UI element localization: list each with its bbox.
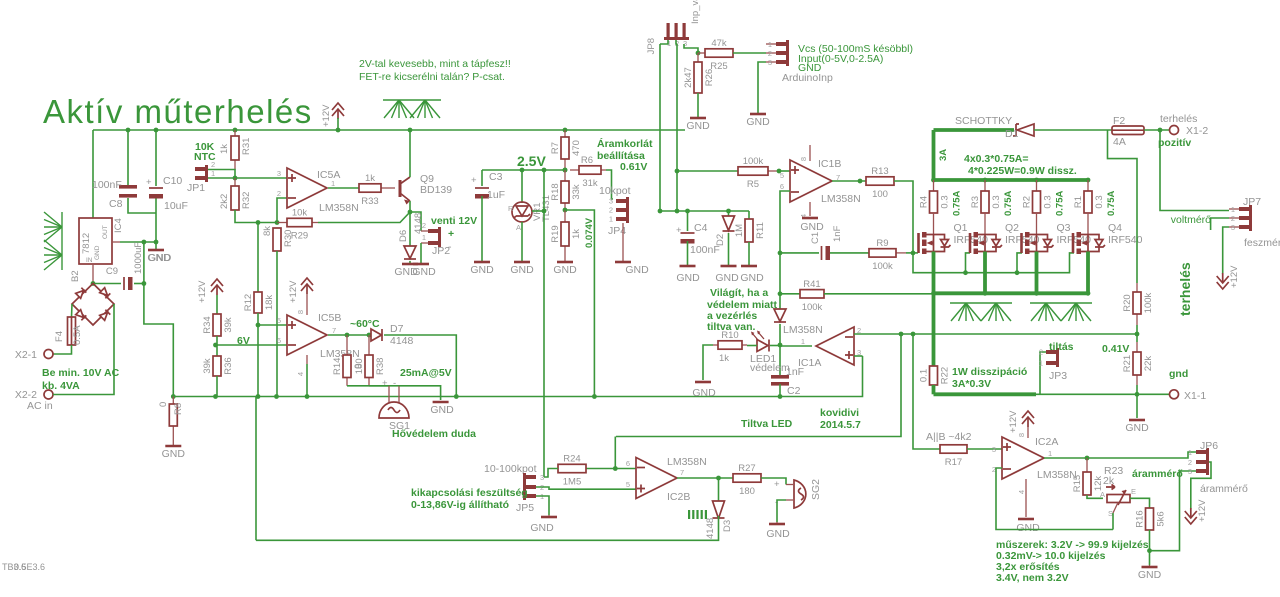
junction Q1 source on bus [931, 291, 936, 296]
svg-text:R16: R16 [1135, 510, 1146, 527]
resistor R21 22k [1122, 342, 1154, 385]
svg-text:R17: R17 [945, 457, 962, 468]
svg-text:pozitív: pozitív [1158, 137, 1191, 149]
junction R25 R26 node [696, 51, 701, 56]
svg-text:kovidivi: kovidivi [820, 407, 859, 419]
wire D3 riser [718, 478, 720, 501]
wire C1 right to R9 [830, 252, 869, 254]
svg-text:33k: 33k [571, 184, 582, 200]
wire F2 to X1-2 [1144, 129, 1169, 131]
svg-text:0.75A: 0.75A [1055, 191, 1066, 216]
svg-text:10uF: 10uF [164, 200, 188, 212]
junction C9 minus corner [142, 281, 147, 286]
wire D2 bottom [728, 233, 730, 266]
ground GND under R10 [695, 381, 711, 384]
wire JP5 pin2 to IC2B +in [536, 487, 636, 489]
svg-text:0: 0 [158, 402, 169, 407]
pin 4 stub IC1B and ground [809, 202, 811, 216]
pin 8 stub IC1B [809, 145, 811, 161]
wire JP6 pin2 to +12V down arrow [1191, 462, 1211, 509]
wire 0.41V node to R21 [1136, 334, 1138, 342]
svg-text:3: 3 [1231, 223, 1235, 232]
svg-text:C2: C2 [787, 385, 801, 397]
svg-text:R7: R7 [550, 142, 561, 154]
svg-text:C1: C1 [810, 232, 821, 244]
svg-text:4148: 4148 [390, 335, 414, 347]
svg-text:IC2B: IC2B [667, 491, 690, 503]
svg-text:2: 2 [609, 206, 613, 215]
capacitor C9 1000uF [106, 242, 144, 290]
svg-text:C3: C3 [489, 171, 503, 183]
wire Q2 source to bus [983, 252, 987, 294]
wire R29 right to Q9 emitter [318, 212, 410, 223]
connector JP4 10kpot [608, 197, 629, 238]
junction gate feed node [911, 251, 916, 256]
ground GND under D6 [402, 263, 418, 266]
junction R12 IC5B node [256, 323, 261, 328]
ground GND under R11 [741, 265, 757, 268]
junction NTC divider node [275, 220, 280, 225]
junction IC2B feedback node [613, 466, 618, 471]
connector X1-2 [1170, 126, 1179, 135]
svg-text:R31: R31 [241, 138, 252, 155]
wire emitter node to JP2 [410, 212, 421, 231]
junction R15 top [1085, 456, 1090, 461]
wire JP2 pin1 to ground [420, 243, 422, 264]
resistor R19 1k [550, 210, 582, 262]
junction R8 top on rail [171, 394, 176, 399]
wire Q9 collector to rail [409, 130, 411, 177]
svg-text:D6: D6 [398, 230, 409, 242]
svg-text:C10: C10 [163, 175, 182, 187]
wire JP9 pin3 to ground [758, 62, 766, 114]
svg-text:IC4: IC4 [113, 218, 124, 233]
wire gate bus down [913, 253, 1074, 273]
pin 8 stub IC2A [1027, 427, 1029, 438]
svg-text:Világít, ha a: Világít, ha a [710, 287, 768, 299]
svg-text:GND: GND [553, 264, 577, 276]
resistor R36 39k [202, 356, 234, 376]
svg-text:1: 1 [422, 233, 426, 242]
capacitor C4 100nF [681, 233, 695, 244]
svg-text:1k: 1k [365, 173, 375, 184]
wire R15 to trimpot [1087, 495, 1103, 498]
svg-text:1M5: 1M5 [563, 477, 581, 488]
junction R1 top on bus [1086, 178, 1091, 183]
svg-text:GND: GND [715, 272, 739, 284]
ground GND under C4 [680, 265, 696, 268]
ground GND under R19 [553, 262, 577, 276]
wire C3 top stem [481, 170, 483, 186]
svg-text:+: + [382, 378, 388, 389]
wire TL431 anode to ground [521, 222, 523, 262]
svg-text:D2: D2 [715, 234, 726, 246]
junction R12 top tap [256, 220, 261, 225]
transistor Q4 IRF540 mosfet [1073, 213, 1143, 254]
svg-text:10k: 10k [292, 208, 308, 219]
svg-text:ArduinoInp: ArduinoInp [782, 72, 833, 84]
diode D2 [723, 216, 735, 231]
svg-text:IC1B: IC1B [818, 158, 841, 170]
svg-text:18k: 18k [264, 295, 275, 311]
diode D6 4148 [404, 246, 416, 259]
wire TL431 cathode [521, 170, 523, 203]
wire IC1B -in down [780, 191, 790, 310]
svg-text:GND: GND [1138, 569, 1162, 581]
svg-text:R36: R36 [223, 357, 234, 374]
svg-text:R26: R26 [704, 69, 715, 86]
svg-text:LM358N: LM358N [667, 456, 707, 468]
svg-text:A||B ~4k2: A||B ~4k2 [926, 431, 972, 443]
junction IC1A minus node [899, 332, 904, 337]
wire R6 to JP4 pin3 [606, 170, 613, 199]
supply +12V arrow main rail [321, 103, 344, 127]
resistor R13 100 [866, 166, 894, 200]
svg-text:1: 1 [768, 40, 772, 49]
connector JP5 [516, 473, 544, 514]
resistor R11 1M [734, 219, 766, 242]
junction R12 branch on rail [256, 394, 261, 399]
connector JP9 [766, 40, 789, 67]
wire R16 bottom [1149, 530, 1151, 565]
supply +12V arrow above IC5B [288, 278, 313, 303]
fuse F2 4A [1112, 115, 1144, 148]
wire IC2A out [1044, 452, 1196, 458]
svg-text:R8: R8 [173, 403, 184, 415]
svg-text:2: 2 [1231, 214, 1235, 223]
svg-text:180: 180 [354, 358, 365, 374]
wire R12 top riser [257, 223, 259, 293]
svg-text:R41: R41 [803, 279, 820, 290]
svg-text:0.75A: 0.75A [1003, 191, 1014, 216]
svg-text:GND: GND [746, 116, 770, 128]
svg-text:FET-re kicserélni talán? P-csa: FET-re kicserélni talán? P-csat. [359, 71, 505, 83]
wire Q3 gate riser [1017, 253, 1022, 273]
junction Q2 source on bus [983, 291, 988, 296]
svg-text:R20: R20 [1122, 294, 1133, 311]
svg-text:IC1A: IC1A [798, 357, 821, 369]
capacitor C8 100nF [119, 185, 137, 198]
connector JP6 [1188, 440, 1218, 476]
junction C8 top on rail [126, 128, 131, 133]
junction C9 minus on gnd bus [142, 240, 147, 245]
op-amp IC2A [1002, 437, 1044, 479]
svg-text:B2: B2 [70, 270, 81, 282]
wire JP8 pin2 cont down [676, 171, 678, 211]
svg-text:D1: D1 [1005, 128, 1019, 140]
svg-text:1k: 1k [719, 353, 729, 364]
wire D6 to ground [409, 261, 411, 264]
svg-text:GND: GND [510, 264, 534, 276]
wire R34 R36 join [216, 336, 218, 356]
svg-text:árammérő: árammérő [1132, 468, 1183, 480]
pin 4 stub IC2A and ground [1025, 479, 1027, 517]
svg-text:100k: 100k [872, 261, 893, 272]
junction Q2 gate riser [963, 270, 968, 275]
svg-text:5: 5 [277, 316, 281, 325]
wire schottky to D1 [934, 128, 1015, 132]
ground GND under JP5 [541, 515, 557, 517]
svg-text:D7: D7 [390, 323, 404, 335]
wire C4 bottom [687, 241, 689, 266]
svg-text:LM358N: LM358N [1037, 469, 1077, 481]
svg-text:10-100kpot: 10-100kpot [484, 463, 537, 475]
svg-text:X2-1: X2-1 [15, 349, 37, 361]
wire JP7 pin2 stub [1211, 218, 1229, 230]
svg-text:GND: GND [692, 387, 716, 399]
wire JP5 pin1 to ground [536, 496, 549, 515]
wire Q4 source to bus [1086, 252, 1090, 294]
svg-text:5: 5 [626, 480, 630, 489]
svg-text:GND: GND [470, 264, 494, 276]
wire R11 bottom [748, 242, 750, 266]
svg-text:7: 7 [680, 468, 684, 477]
svg-text:Be min. 10V AC: Be min. 10V AC [42, 367, 120, 379]
svg-text:3A: 3A [938, 149, 949, 161]
ground GND under JP4 [615, 262, 649, 276]
wire JP3 pin2 riser [1040, 352, 1046, 394]
ground GND near IC4 [148, 249, 164, 252]
svg-text:GND: GND [625, 264, 649, 276]
svg-text:180: 180 [739, 486, 755, 497]
svg-text:GND: GND [1016, 522, 1040, 534]
wire IC2A -in loop [996, 468, 1113, 530]
wire JP7 pin3 to +12V [1223, 227, 1229, 274]
op-amp IC1B [790, 160, 832, 202]
svg-text:5: 5 [780, 171, 784, 180]
wire R31 bottom short [234, 170, 236, 178]
svg-text:X1-1: X1-1 [1184, 390, 1206, 402]
svg-text:+12V: +12V [1008, 410, 1019, 433]
svg-text:Q1: Q1 [954, 222, 968, 234]
svg-text:R2: R2 [1022, 196, 1033, 208]
svg-text:GND: GND [686, 120, 710, 132]
svg-text:JP3: JP3 [1049, 370, 1067, 382]
svg-text:3: 3 [1188, 467, 1192, 476]
svg-text:F4: F4 [54, 331, 65, 342]
capacitor C10 10uF [149, 188, 163, 199]
resistor R24 1M5 [558, 454, 586, 488]
wire D1 to F2 [1034, 129, 1112, 131]
svg-text:0-13,86V-ig állítható: 0-13,86V-ig állítható [411, 499, 509, 511]
resistor R33 1k [359, 173, 395, 207]
svg-text:+: + [146, 177, 152, 188]
diode D1 schottky [1005, 124, 1034, 140]
wire R16 node to JP6 pin3 [1150, 471, 1197, 551]
svg-text:4: 4 [1017, 490, 1026, 494]
svg-text:1W disszipáció: 1W disszipáció [952, 366, 1027, 378]
resistor R18 33k [550, 170, 582, 210]
wire LED anode to R10 [747, 345, 757, 347]
svg-text:+: + [774, 479, 780, 490]
junction R17 riser [911, 332, 916, 337]
wire R17 feed [913, 334, 940, 449]
wire C8 bottom to C10 bottom [128, 198, 156, 213]
svg-text:0.61V: 0.61V [620, 161, 647, 173]
svg-text:E: E [1131, 487, 1136, 496]
fuse F4 0.5A [54, 317, 83, 345]
wire R24 line [586, 468, 636, 470]
junction IC5B pin4 on rail [305, 394, 310, 399]
svg-text:0.074V: 0.074V [584, 217, 595, 248]
wire SG1 right to ground [399, 386, 441, 400]
wire D4 to LED node [779, 324, 781, 345]
wire R14 R38 bottoms to SG1 [347, 385, 389, 387]
svg-text:R3: R3 [970, 196, 981, 208]
svg-text:3: 3 [277, 169, 281, 178]
resistor R22 0.1 [919, 366, 951, 385]
ground GND under JP9 [746, 114, 770, 128]
svg-text:2k: 2k [1103, 475, 1115, 487]
svg-text:LM358N: LM358N [783, 324, 823, 336]
wire C4 stem [687, 211, 689, 231]
resistor R26 2k47 [683, 53, 715, 93]
ground GND under D2 [721, 265, 737, 268]
svg-text:LM358N: LM358N [821, 193, 861, 205]
svg-text:GND: GND [412, 266, 436, 278]
svg-text:4148: 4148 [705, 518, 716, 539]
wire R11 top [748, 211, 750, 219]
wire LED cathode to node [770, 345, 780, 347]
svg-text:0.3: 0.3 [1043, 195, 1054, 208]
wire C10 top stem [155, 130, 157, 186]
svg-text:F2: F2 [1113, 115, 1125, 127]
wire R32 bottom to R29 row [235, 210, 277, 223]
junction R2 top on bus [1034, 178, 1039, 183]
junction bridge plus node [91, 281, 96, 286]
junction R31 JP1 node [233, 176, 238, 181]
svg-text:SG2: SG2 [810, 479, 822, 500]
supply +12V down arrow under JP7 [1217, 265, 1240, 289]
svg-text:4*0.225W=0.9W dissz.: 4*0.225W=0.9W dissz. [968, 165, 1077, 177]
svg-text:R27: R27 [738, 463, 755, 474]
transistor Q9 BD139 [400, 173, 452, 205]
wire D3 bottom to kill line [256, 516, 719, 540]
svg-text:voltmérő: voltmérő [1171, 214, 1211, 226]
junction Q3 source on bus [1034, 291, 1039, 296]
svg-text:R1: R1 [1073, 196, 1084, 208]
connector JP8 [646, 23, 689, 54]
svg-text:1: 1 [211, 169, 215, 178]
wire R20 bottom to 0.41V node [1136, 325, 1138, 334]
ground GND under IC1B [802, 217, 818, 220]
svg-text:Hővédelem duda: Hővédelem duda [392, 428, 476, 440]
wire bottom bus to X1-1 [1036, 393, 1170, 395]
wire C8 top stem [127, 130, 129, 185]
ground GND right of SG1 [433, 401, 449, 404]
connector X2-2 [44, 390, 53, 399]
connector JP3 tiltás [1039, 348, 1067, 383]
pin stubs SG1 [389, 386, 399, 403]
svg-text:R22: R22 [940, 367, 951, 384]
junction Q3 gate riser [1015, 270, 1020, 275]
junction JP8 pin1 на 0.074V line [658, 209, 663, 214]
wire thick Q1 column to R22 [932, 293, 936, 366]
svg-text:47k: 47k [711, 38, 727, 49]
junction Q4 source on bus [1086, 291, 1091, 296]
wire IC1A minus down to feedback row [616, 334, 901, 437]
wire R36 bottom [216, 376, 218, 397]
led LED1 [750, 331, 790, 375]
wire IC1A +in to rail corner [854, 355, 863, 357]
transistor Q3 IRF540 mosfet [1022, 213, 1092, 254]
supply +12V arrow above IC2A [1008, 410, 1034, 433]
wire 2.5V line [482, 169, 565, 171]
svg-text:0.3: 0.3 [1094, 195, 1105, 208]
wire JP8 pin2 stub [676, 40, 677, 44]
svg-text:0.75A: 0.75A [1106, 191, 1117, 216]
svg-text:terhelés: terhelés [1177, 262, 1193, 316]
svg-text:+12V: +12V [288, 280, 299, 303]
svg-text:kikapcsolási feszültség: kikapcsolási feszültség [411, 487, 528, 499]
wire R10 left to ground [703, 345, 713, 380]
junction JP8 pin2 R5 node [675, 169, 680, 174]
svg-text:JP5: JP5 [516, 502, 534, 514]
svg-text:1: 1 [1231, 205, 1235, 214]
svg-text:tiltás: tiltás [1049, 341, 1074, 353]
wire feedback riser [614, 437, 616, 469]
ground GND under VR1 [510, 262, 534, 276]
svg-text:+12V: +12V [321, 104, 332, 127]
svg-text:1nF: 1nF [832, 225, 843, 242]
ground GND under SG2 [769, 522, 785, 524]
svg-text:39k: 39k [202, 358, 213, 374]
wire R25 to JP9 pin2 [733, 52, 766, 54]
wire R41 right to source bus [824, 293, 934, 295]
svg-text:BD139: BD139 [420, 184, 452, 196]
svg-text:~60°C: ~60°C [350, 318, 380, 330]
svg-text:R32: R32 [241, 192, 252, 209]
wire arrow stem to rail [337, 118, 339, 130]
wire 6V node to IC5B -in [216, 344, 288, 346]
wire C3 bottom [481, 196, 483, 262]
svg-text:6: 6 [626, 459, 630, 468]
connector X1-1 [1170, 390, 1179, 399]
connector JP7 [1229, 196, 1261, 232]
resistor R9 100k [869, 238, 906, 272]
wire IC2B out to R27 [677, 477, 733, 479]
wire IC4 GND pin to ground symbol [120, 242, 156, 250]
wire R17 to IC2A +in [967, 448, 1002, 450]
wire IC1A -in right [854, 333, 901, 335]
svg-text:R14: R14 [332, 358, 343, 375]
svg-text:JP6: JP6 [1200, 440, 1218, 452]
svg-text:8: 8 [296, 310, 305, 314]
wire thick top bus [934, 178, 1090, 182]
wire R27 to SG2 [761, 478, 786, 485]
wire R5 line [677, 170, 738, 172]
resistor R32 2k2 [231, 178, 239, 210]
resistor R29 10k [277, 208, 318, 242]
op-amp IC2B [636, 458, 677, 499]
junction R7 bottom [563, 168, 568, 173]
wire 2.5V down to JP5 [543, 170, 545, 477]
svg-text:R4: R4 [919, 196, 930, 208]
wire JP8 pin1 down [659, 44, 661, 211]
svg-text:100: 100 [872, 189, 888, 200]
svg-text:-: - [448, 241, 452, 253]
svg-text:1: 1 [609, 215, 613, 224]
junction TL431 top [520, 168, 525, 173]
wire R26 to ground [697, 93, 699, 118]
svg-text:R34: R34 [202, 316, 213, 333]
svg-text:R5: R5 [747, 179, 759, 190]
svg-text:IC5B: IC5B [318, 312, 341, 324]
wire C2 bottom [779, 384, 781, 397]
svg-text:R38: R38 [375, 358, 386, 375]
pin 4 stub IC5B [306, 355, 308, 364]
wire R30 bottom to ground rail [276, 251, 278, 397]
